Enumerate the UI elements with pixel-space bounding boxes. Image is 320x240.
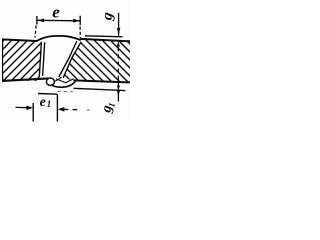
bead level extension line (for g1) — [74, 88, 126, 90]
dimension e: line — [37, 19, 80, 22]
bead level left segment — [38, 93, 57, 96]
dimension e1: right arrow shaft — [64, 108, 69, 110]
weld crown (face reinforcement) — [36, 36, 81, 42]
root bead internal scallop — [56, 79, 74, 83]
right groove face outer line — [63, 42, 81, 78]
dimension e1: right arrow head — [58, 107, 65, 112]
right plate bottom edge — [74, 80, 131, 82]
dimension g: up arrow below plate edge — [117, 41, 120, 46]
dimension e: left tick — [36, 16, 38, 25]
dimension g: dashed continuation downward — [117, 47, 119, 77]
label g1 (rotated) — [99, 100, 117, 115]
left groove fusion line — [43, 42, 45, 76]
dimension e1: left arrow shaft — [16, 106, 28, 108]
right groove fusion line — [59, 41, 77, 77]
dimension g: down arrow — [117, 28, 120, 35]
dimension e1: left arrow head — [26, 106, 33, 111]
left groove face outer line — [39, 42, 41, 77]
left plate top edge — [2, 39, 37, 41]
right plate top edge — [80, 39, 130, 41]
bead level middle dashes — [57, 90, 73, 92]
root bead inner curve — [54, 77, 62, 82]
dimension e: right arrow — [73, 19, 80, 23]
dimension e1: left extension line — [32, 103, 34, 122]
dimension g1: down arrow — [117, 91, 120, 97]
dimension e1: shaft dash continuation — [73, 109, 78, 111]
right plate hatching — [29, 39, 169, 83]
left plate left edge — [2, 39, 4, 81]
left plate bottom edge — [2, 78, 49, 81]
dimension e: left arrow — [37, 19, 44, 23]
stray dot — [87, 109, 90, 111]
left plate hatching — [0, 39, 77, 81]
svg-text:e: e — [52, 2, 60, 21]
dimension g1: up arrow — [117, 82, 120, 87]
dimension g: shaft above — [118, 13, 120, 36]
crown level extension line (for g) — [85, 36, 123, 37]
svg-text:e: e — [40, 95, 46, 110]
dimension g1: shaft — [117, 77, 119, 102]
dimension e: right tick — [79, 16, 81, 25]
dimension e1: right extension line — [56, 95, 58, 122]
svg-text:1: 1 — [47, 99, 52, 109]
dimension e: right extension dashes — [79, 27, 81, 39]
dimension e: left extension dashes — [35, 26, 36, 38]
root bead bottom outline — [51, 81, 75, 87]
root bead left circle — [46, 78, 54, 85]
